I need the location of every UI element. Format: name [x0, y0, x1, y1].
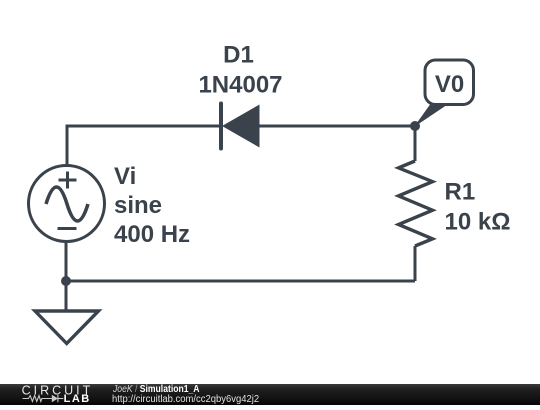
CircuitLab logo — [14, 384, 114, 405]
junction node at V0 — [410, 121, 420, 131]
wire R1 bottom lead — [414, 246, 417, 281]
svg-text:V0: V0 — [435, 71, 464, 98]
wire node V0 down to R1 — [414, 126, 417, 161]
svg-text:1N4007: 1N4007 — [198, 72, 282, 99]
label D1 1N4007 — [198, 42, 282, 99]
wire diode to node V0 — [259, 125, 415, 128]
svg-text:400 Hz: 400 Hz — [114, 221, 190, 248]
label Vi sine 400 Hz — [114, 163, 190, 248]
wire top-left vertical segment — [66, 125, 69, 166]
resistor R1 symbol — [399, 161, 433, 246]
svg-text:R1: R1 — [445, 178, 476, 205]
footer bar — [0, 384, 540, 405]
svg-text:10 kΩ: 10 kΩ — [445, 209, 511, 236]
svg-text:LAB: LAB — [64, 393, 91, 405]
footer credit text — [113, 385, 200, 395]
node flag V0 — [414, 60, 474, 127]
wire junction to ground — [65, 281, 68, 311]
wire source bottom to junction — [65, 242, 68, 281]
label R1 10 kOhm — [445, 178, 511, 235]
diode D1 symbol — [221, 104, 260, 149]
voltage source Vi symbol — [29, 166, 105, 242]
svg-text:D1: D1 — [223, 42, 254, 69]
svg-text:Vi: Vi — [114, 163, 136, 190]
wire bottom horizontal — [66, 280, 415, 283]
svg-text:sine: sine — [114, 192, 162, 219]
junction node at source bottom — [61, 276, 71, 286]
ground symbol — [35, 311, 99, 344]
wire top-left horizontal segment — [67, 125, 221, 128]
